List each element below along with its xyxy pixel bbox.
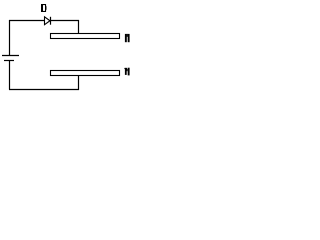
- battery B short plate (-): [4, 60, 14, 62]
- diode D triangle (anode): [45, 17, 51, 25]
- battery B long plate (+): [2, 55, 19, 57]
- label M: [125, 34, 130, 42]
- label N: [124, 68, 129, 76]
- wire: left vertical from battery short plate down to bottom corner: [9, 61, 11, 90]
- wire: left vertical from top corner down to battery long plate: [9, 20, 11, 55]
- wire: bottom horizontal from left corner to plate-N stub: [9, 89, 79, 91]
- wire: right vertical stub from bottom wire up to plate N: [78, 75, 80, 90]
- capacitor plate N (rectangle): [51, 71, 120, 76]
- wire: top-left horizontal from battery top corner to diode anode: [9, 20, 45, 22]
- capacitor plate M (rectangle): [51, 34, 120, 39]
- label D: [41, 4, 47, 12]
- wire: top horizontal from diode cathode to plate-M stub corner: [51, 20, 80, 22]
- diode D cathode bar: [50, 17, 52, 25]
- wire: right vertical stub from top wire down to plate M: [78, 20, 80, 34]
